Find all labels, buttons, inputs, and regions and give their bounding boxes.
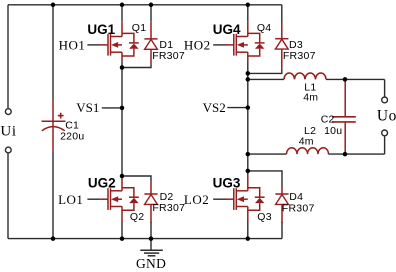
node C2 top [343,77,348,82]
diode D2 [144,194,157,204]
wire L2 left [248,153,287,155]
pin Q1 source [121,52,123,62]
diode D1 [144,39,157,49]
svg-text:VS1: VS1 [76,100,99,115]
terminal Ui+ [5,109,11,115]
wire D3 cathode [281,5,283,22]
transistor Q3 [226,188,265,211]
wire L2 right [329,153,385,155]
svg-text:GND: GND [136,256,166,271]
svg-text:HO2: HO2 [184,37,211,52]
capacitor C2 [332,82,356,151]
wire VS2 stub [227,107,248,109]
node bottom rail GND [149,236,154,241]
wire Q4 source to node [247,62,249,73]
wire D1 anode to node [122,65,151,68]
wire L1 left [248,78,284,80]
svg-text:VS2: VS2 [203,100,226,115]
wire Q1 drain [121,5,123,22]
wire VS2 vertical [247,73,249,170]
pin D4 cathode [281,188,283,194]
svg-text:Q2: Q2 [130,211,145,223]
wire HO1 stub [87,44,100,46]
wire Q1 source to node [121,62,123,68]
node VS2 L2 [246,152,251,157]
wire D2 cathode from node [122,176,151,181]
wire Q2 drain from node [121,176,123,180]
node bottom rail C1 [51,236,56,241]
svg-text:HO1: HO1 [59,37,86,52]
svg-text:Q1: Q1 [132,22,147,34]
svg-text:LO2: LO2 [184,192,209,207]
wire VS1 stub [102,107,122,109]
transistor Q1 [100,33,139,56]
pin Q3 drain [247,176,249,191]
wire L1 right [326,78,385,80]
pin D3 cathode [281,22,283,39]
wire D1 cathode [150,5,152,21]
wire left edge upper [7,5,9,108]
svg-text:Q3: Q3 [257,211,272,223]
node top rail C1 [51,3,56,8]
pin Q4 drain [247,21,249,36]
pin Q3 source [247,207,249,222]
svg-text:C2: C2 [321,114,335,126]
transistor Q2 [100,188,139,211]
wire Q3 drain from node [247,171,249,176]
wire HO2 stub [213,44,226,46]
node VS1 D1 [120,65,125,70]
svg-text:Uo: Uo [377,107,396,124]
node top rail Q1 [120,3,125,8]
wire D3 anode to node [248,68,282,73]
node VS2 L1 [246,77,251,82]
svg-text:FR307: FR307 [152,50,185,62]
wire Q4 drain [247,5,249,22]
svg-text:D2: D2 [160,191,174,203]
svg-text:LO1: LO1 [58,192,83,207]
pin D3 anode [281,49,283,68]
wire C2 top tie [344,79,346,82]
wire Q2 source to rail [121,221,123,239]
svg-text:FR307: FR307 [282,202,315,214]
pin D2 cathode [150,181,152,194]
terminal Uo+ [382,97,388,103]
node VS1 D2 [120,174,125,179]
node bottom rail Q3 [246,236,251,241]
diode D3 [275,39,288,49]
wire C2 bottom tie [344,151,346,154]
wire LO1 stub [87,198,100,200]
wire LO2 stub [213,198,226,200]
svg-text:UG1: UG1 [87,22,115,37]
node VS2 D3 [246,71,251,76]
node top rail Q4 [246,3,251,8]
pin D1 cathode [150,21,152,39]
pin Q4 source [247,52,249,62]
svg-text:220u: 220u [60,130,84,142]
wire Uo top [384,79,386,96]
pin Q1 drain [121,21,123,36]
wire Uo bottom [384,136,386,154]
capacitor C1 [42,99,66,152]
wire top rail [8,4,282,6]
inductor L1 [284,73,326,79]
svg-text:4m: 4m [303,92,318,104]
node VS2 D4 [246,169,251,174]
pin D2 anode [150,204,152,223]
inductor L2 [287,148,329,154]
pin D1 anode [150,49,152,64]
terminal Uo- [382,130,388,136]
node VS1 stub [120,106,125,111]
svg-text:FR307: FR307 [152,202,185,214]
svg-text:4m: 4m [299,135,314,147]
wire bottom rail [8,238,282,240]
node bottom rail Q2 [120,236,125,241]
node C2 bottom [343,152,348,157]
wire D4 anode to rail [281,222,283,239]
node VS2 stub [246,105,251,110]
wire VS1 vertical [121,68,123,177]
wire D2 anode to rail [150,222,152,239]
wire left edge lower [7,153,9,238]
svg-text:UG2: UG2 [88,176,116,191]
svg-text:FR307: FR307 [283,50,316,62]
pin D4 anode [281,204,283,223]
diode D4 [275,194,288,204]
node top rail D1 [149,3,154,8]
wire D4 cathode from node [248,171,282,188]
wire C1 bottom lead [52,152,54,239]
svg-text:UG3: UG3 [213,176,241,191]
pin Q2 drain [121,180,123,191]
pin Q2 source [121,207,123,222]
svg-text:10u: 10u [324,125,342,137]
ground [140,239,163,256]
svg-text:Ui: Ui [0,123,16,139]
terminal Ui- [5,147,11,153]
wire C1 top lead [52,5,54,99]
transistor Q4 [226,33,265,56]
wire Q3 source to rail [247,221,249,239]
svg-text:Q4: Q4 [257,22,272,34]
svg-text:UG4: UG4 [213,22,241,37]
